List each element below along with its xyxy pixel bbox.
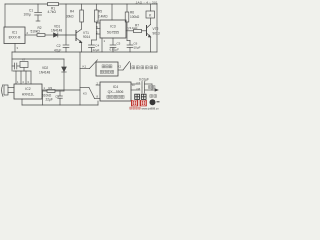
wire IC3 left pin stubs [96, 22, 100, 24]
IC IC2 (HXN11L) [14, 84, 42, 99]
svg-text:XT: XT [22, 58, 26, 62]
node recorder text [132, 66, 135, 69]
svg-text:C4: C4 [95, 43, 99, 47]
svg-text:510kΩ: 510kΩ [31, 30, 41, 34]
svg-text:100kΩ: 100kΩ [130, 15, 140, 19]
svg-text:10µF: 10µF [134, 46, 141, 50]
svg-text:C8: C8 [137, 87, 141, 91]
switch K-2 [118, 69, 123, 71]
transistor VT2 [142, 30, 147, 32]
watermark red caption [130, 107, 132, 109]
wire K column [79, 52, 81, 105]
node phone line text [148, 86, 151, 89]
wire bottom rail [22, 104, 98, 106]
svg-text:8XXX-III: 8XXX-III [9, 36, 21, 40]
wire IC3 pin1 down [101, 38, 103, 52]
watermark red square 1 [131, 100, 138, 106]
svg-text:IC1: IC1 [12, 31, 17, 35]
wire VD2 drop [63, 59, 65, 67]
svg-text:K1: K1 [83, 65, 87, 69]
svg-text:2.4MΩ: 2.4MΩ [98, 15, 108, 19]
svg-text:9014: 9014 [83, 35, 90, 39]
wire top rail right [59, 3, 158, 5]
svg-text:1N4148: 1N4148 [39, 71, 50, 75]
svg-text:47µF: 47µF [54, 49, 61, 53]
resistor R3 [47, 90, 55, 93]
resistor R7 [134, 29, 142, 32]
capacitor C5 [112, 38, 114, 45]
svg-text:100µ: 100µ [24, 13, 31, 17]
wire IC4 pin11 [131, 83, 140, 85]
resistor R6 [125, 12, 129, 22]
wire lower tap [11, 52, 13, 71]
capacitor C3 [59, 91, 61, 96]
wire IC1 pin3 down [14, 44, 16, 53]
resistor R2 [37, 34, 45, 37]
switch K-1 [80, 68, 90, 70]
wire IC2 pin1 right [42, 89, 80, 91]
svg-text:R5: R5 [98, 10, 102, 14]
wire C1 top lead [37, 4, 39, 12]
wire top rail left [5, 3, 48, 5]
wire IC1 pin2 to R2 [25, 34, 37, 36]
svg-text:5.1kΩ: 5.1kΩ [130, 26, 139, 30]
svg-text:K3: K3 [83, 92, 87, 96]
watermark dark circle [150, 99, 156, 105]
capacitor C1 [35, 12, 42, 14]
IC IC4 (QX-5506) [100, 82, 131, 101]
capacitor XT bars [14, 63, 16, 69]
svg-text:0.01µF: 0.01µF [110, 48, 120, 52]
wire IC2 top pin bus [13, 70, 31, 72]
wire arrow out [152, 89, 156, 91]
diode VD1 [54, 33, 58, 37]
wire VD1 to VT1 base [58, 34, 76, 36]
watermark red square 2 [140, 100, 147, 106]
svg-text:C3: C3 [55, 95, 59, 99]
svg-text:9013: 9013 [153, 32, 160, 36]
svg-text:C5: C5 [117, 41, 121, 45]
svg-text:30kΩ: 30kΩ [66, 15, 74, 19]
wire IC4 pin out2 [131, 89, 140, 91]
svg-text:R4: R4 [70, 10, 74, 14]
svg-text:IC4: IC4 [113, 85, 118, 89]
svg-text:1N4148: 1N4148 [51, 29, 62, 33]
svg-text:4.7kΩ: 4.7kΩ [48, 10, 57, 14]
wire IC3 pin3 to R7 [126, 30, 134, 32]
svg-text:VD2: VD2 [42, 66, 48, 70]
transistor VT1 [75, 31, 77, 41]
svg-text:JAG - 4 - 301: JAG - 4 - 301 [136, 0, 158, 4]
svg-text:QX—5506: QX—5506 [108, 90, 124, 94]
resistor R5 [95, 10, 99, 22]
IC IC3 (5G7555 timer) [100, 20, 126, 38]
capacitor C7 [141, 82, 143, 88]
hook switch box [96, 62, 118, 76]
crystal B1 box [20, 62, 28, 68]
svg-text:22µF: 22µF [46, 98, 53, 102]
node hook switch text [102, 65, 105, 68]
capacitor C6 [127, 40, 130, 42]
svg-text:IC3: IC3 [110, 25, 115, 29]
svg-text:K2: K2 [118, 65, 122, 69]
svg-text:IC2: IC2 [25, 87, 30, 91]
IC IC1 (8XXX-III melody chip) [4, 27, 25, 44]
wire right edge [156, 4, 158, 52]
watermark dark text [135, 94, 140, 99]
wire mid ground rail [12, 51, 157, 53]
svg-text:C7: C7 [137, 81, 141, 85]
capacitor C2 [65, 35, 67, 45]
svg-text:R3: R3 [49, 86, 53, 90]
wire left edge [4, 4, 6, 27]
svg-text:0.01µF: 0.01µF [139, 78, 149, 82]
svg-text:5G7555: 5G7555 [107, 31, 119, 35]
speaker B [4, 85, 8, 95]
svg-text:www.jxt888.cn: www.jxt888.cn [142, 106, 160, 110]
capacitor C4 [91, 40, 93, 45]
wire R2 to VD1 [45, 34, 54, 36]
diode VD2 [62, 67, 67, 72]
capacitor C8 [141, 88, 143, 94]
switch K-3 [80, 87, 89, 89]
svg-text:22µF: 22µF [93, 48, 100, 52]
wire C2 drop [65, 4, 67, 35]
svg-text:C2: C2 [57, 44, 61, 48]
relay coil K [146, 11, 155, 18]
resistor R1 [48, 3, 59, 6]
wire IC2 bottom pin [21, 99, 23, 105]
svg-text:VT2: VT2 [153, 27, 159, 31]
wire IC3 top pin [111, 4, 113, 20]
resistor R4 [80, 10, 84, 22]
svg-text:HXN11L: HXN11L [22, 93, 35, 97]
watermark logo [130, 94, 160, 110]
